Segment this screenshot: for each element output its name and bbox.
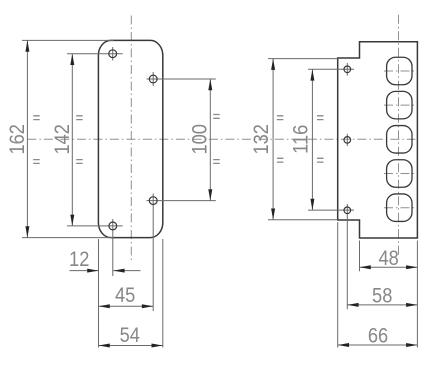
dimension 100 text — [188, 124, 212, 154]
dimension 162 equal marks — [33, 116, 40, 164]
dimension 45 arrows — [99, 304, 154, 308]
dimension 58 arrows — [347, 303, 417, 307]
slot hole S5 centerline — [384, 207, 415, 209]
hole H4 cross / extension to 12 dim — [67, 219, 123, 276]
dimension 100 line — [209, 79, 211, 201]
dimension 48 extension line left — [359, 241, 361, 272]
dimension 45 line — [99, 305, 154, 307]
slot hole S3 — [387, 126, 412, 154]
dimension 54 text — [120, 323, 140, 347]
dimension 48 text — [378, 246, 398, 270]
dimension 100 equal marks — [213, 115, 220, 164]
svg-text:12: 12 — [69, 248, 89, 272]
dimension 12 text — [69, 248, 89, 272]
svg-text:58: 58 — [372, 284, 392, 308]
svg-text:48: 48 — [378, 246, 398, 270]
svg-text:132: 132 — [249, 124, 273, 154]
dimension 12 extension line (plate left edge, shared with 45/54) — [98, 239, 100, 348]
flange hole F2 — [344, 137, 351, 144]
dimension 66 text — [368, 324, 388, 348]
slot hole S5 — [387, 194, 412, 222]
dimension 116 line — [311, 69, 313, 210]
dimension 66 extension line left — [337, 222, 339, 348]
slot hole S4 — [387, 160, 412, 188]
plate outline left view — [98, 40, 162, 237]
flange hole F3 — [344, 207, 351, 214]
dimension 132 arrows — [271, 59, 275, 220]
dimension 100 arrows — [208, 79, 212, 201]
dimension 162 arrows — [25, 40, 29, 237]
hole H1 cross — [67, 47, 123, 61]
dimension 66 line — [338, 344, 418, 346]
hole H2 top-right — [149, 75, 157, 83]
svg-text:116: 116 — [289, 125, 313, 154]
dimension 142 text — [51, 124, 75, 154]
dimension 132 extension lines — [268, 59, 338, 220]
dimension 162 extension lines — [22, 40, 114, 237]
dimension 54 extension line (plate right edge) — [162, 239, 164, 348]
dimension 116 arrows — [310, 69, 314, 210]
dimension 132 equal marks — [277, 116, 284, 162]
flange hole F1 cross / extension to 116 dim — [308, 63, 354, 76]
slot hole S4 centerline — [384, 173, 415, 175]
hole H3 bottom-right — [149, 197, 157, 205]
svg-text:66: 66 — [368, 324, 388, 348]
horizontal centerline (both views) — [27, 138, 415, 140]
dimension 142 arrows — [70, 54, 74, 226]
svg-text:162: 162 — [6, 124, 30, 154]
flange hole F1 — [344, 66, 351, 73]
shared right extension line (48/58/66) — [416, 241, 418, 348]
svg-text:100: 100 — [188, 124, 212, 154]
vertical centerline right view — [398, 15, 400, 255]
dimension 142 line — [71, 54, 73, 226]
dimension 116 equal marks — [317, 116, 324, 162]
dimension 142 equal marks — [76, 116, 83, 164]
dimension 132 text — [249, 124, 273, 154]
dimension 162 text — [6, 124, 30, 154]
dimension 132 line — [272, 59, 274, 220]
dimension 48 arrows — [360, 265, 418, 269]
dimension 116 text — [289, 125, 313, 154]
slot hole S2 centerline — [384, 104, 415, 106]
svg-text:142: 142 — [51, 124, 75, 154]
slot hole S2 — [387, 91, 412, 119]
slot hole S1 centerline — [384, 70, 415, 72]
dimension 162 line — [26, 40, 28, 237]
dimension 48 line — [360, 266, 418, 268]
vertical centerline left view — [130, 16, 132, 263]
hole H2 cross / extension to 100 dim — [147, 72, 216, 86]
bracket outline right view — [338, 42, 418, 238]
svg-text:54: 54 — [120, 323, 140, 347]
hole H1 top-left — [109, 50, 117, 58]
svg-text:45: 45 — [115, 284, 135, 308]
hole H3 cross / extensions to 100 and 45 dims — [147, 194, 216, 312]
dimension 12 arrows — [87, 269, 124, 273]
dimension 12 line — [70, 270, 141, 272]
dimension 58 text — [372, 284, 392, 308]
dimension 58 line — [347, 304, 417, 306]
hole H4 bottom-left — [109, 222, 117, 230]
dimension 66 arrows — [338, 343, 418, 347]
flange hole F3 cross / extensions to 116 and 58 dims — [308, 204, 354, 309]
flange hole F2 cross — [346, 134, 348, 146]
slot hole S1 — [387, 57, 412, 85]
dimension 54 line — [99, 345, 163, 347]
dimension 45 text — [115, 284, 135, 308]
dimension 54 arrows — [99, 344, 163, 348]
